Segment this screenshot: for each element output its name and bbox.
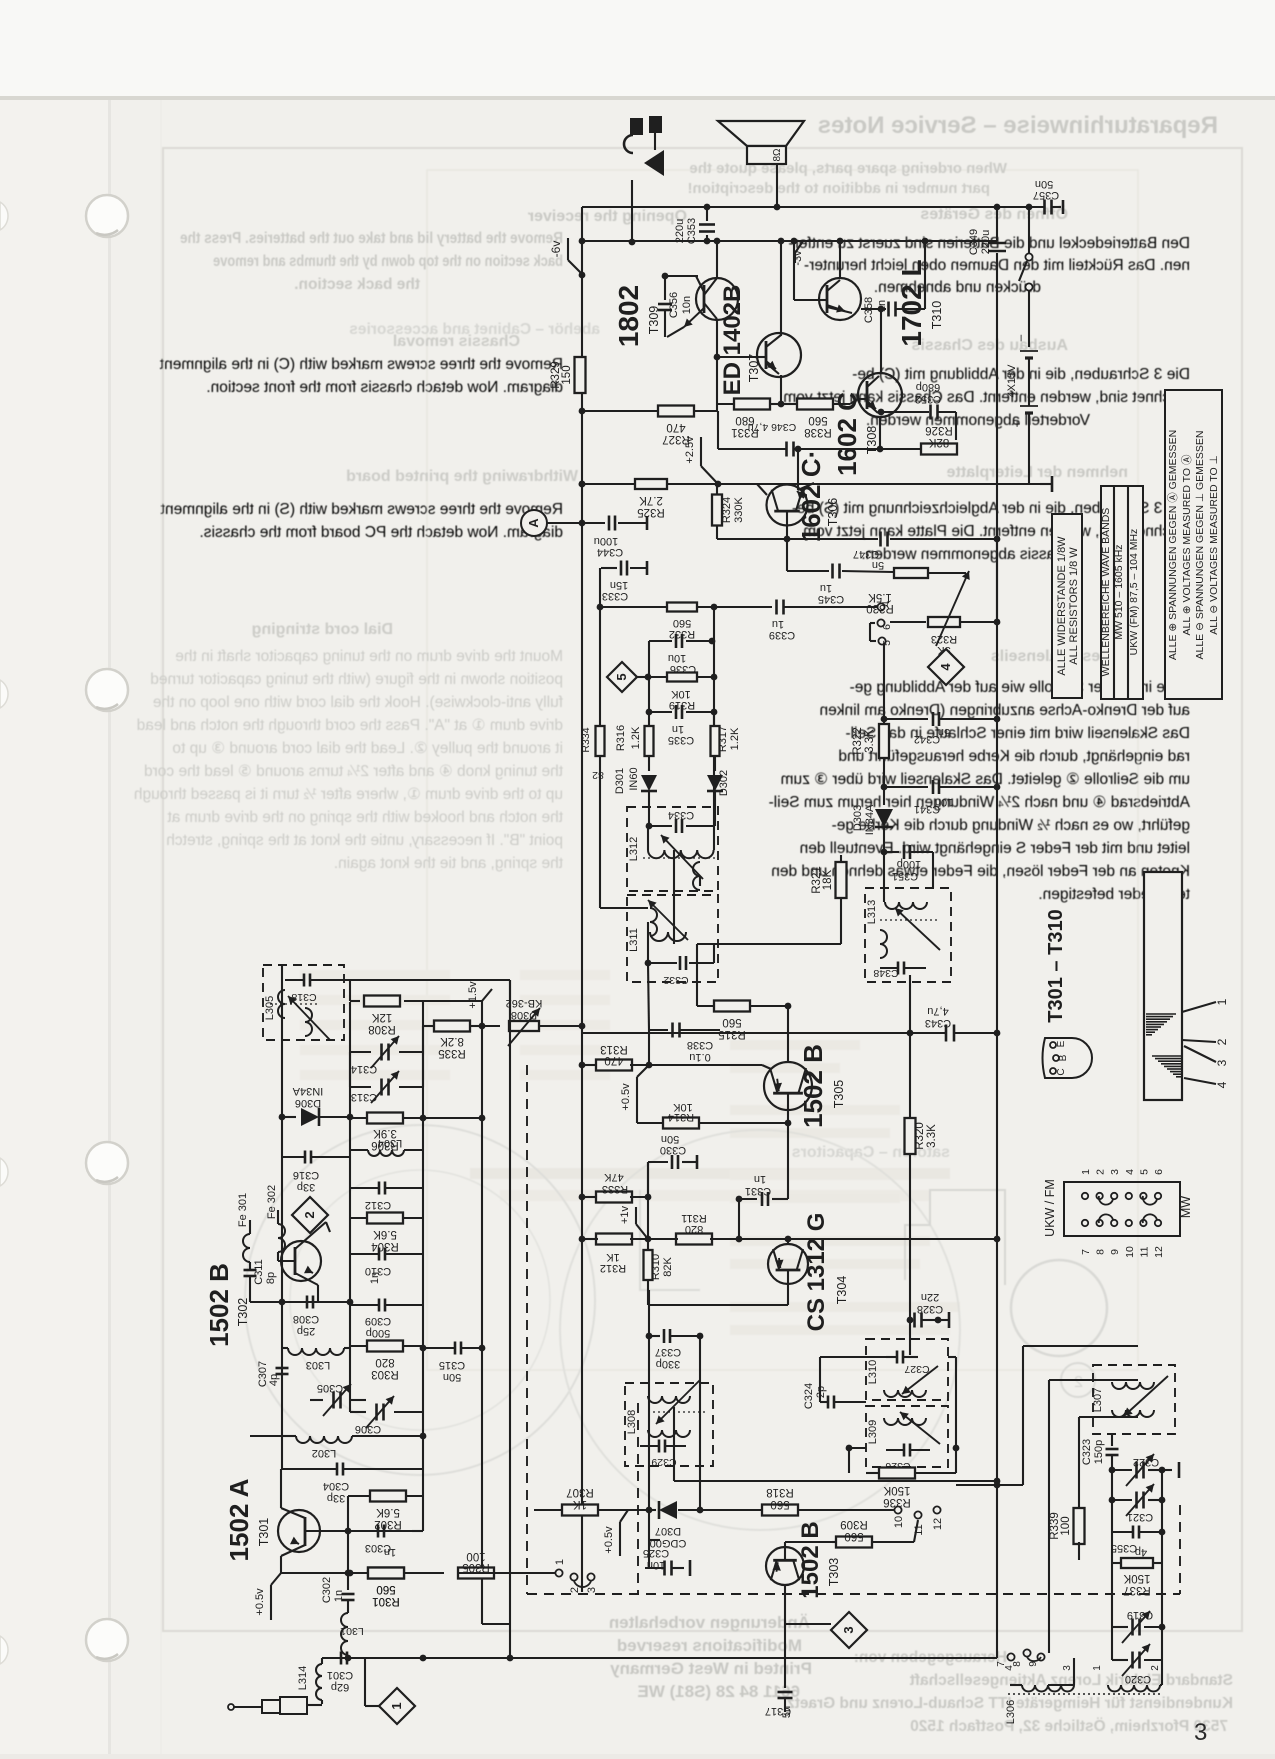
svg-text:3.3K: 3.3K: [864, 729, 876, 753]
IF transformer L310 box: [866, 1339, 948, 1400]
capacitor C318: [303, 974, 306, 987]
svg-text:4p: 4p: [1135, 1546, 1147, 1558]
wire L311 input: [600, 907, 648, 909]
ground C322: [1162, 1469, 1172, 1471]
svg-text:R320: R320: [914, 1122, 926, 1150]
svg-text:12K: 12K: [371, 1011, 392, 1023]
svg-text:18K: 18K: [822, 869, 834, 890]
wire L306a to contacts: [1048, 1684, 1074, 1686]
node junction rail A top: [579, 238, 586, 245]
svg-text:9: 9: [1109, 1249, 1121, 1255]
svg-text:C346 4,7u: C346 4,7u: [748, 421, 797, 433]
rod pin leads: [1182, 1002, 1216, 1012]
wire C327 out left: [820, 1356, 886, 1358]
svg-text:R312: R312: [600, 1262, 626, 1274]
capacitor C322 variable: [1112, 1469, 1132, 1471]
svg-text:IN34A: IN34A: [864, 804, 876, 835]
wire dashed right box: [1179, 1505, 1181, 1594]
svg-text:2.7K: 2.7K: [639, 494, 663, 506]
wire T309 base: [665, 275, 698, 277]
wire T307 emitter: [780, 375, 782, 404]
capacitor C353 electrolytic: [706, 207, 708, 221]
svg-text:ALLE ⊖ SPANNUNGEN GEGEN ⊥ GE: ALLE ⊖ SPANNUNGEN GEGEN ⊥ GEMESSEN: [1194, 431, 1206, 660]
svg-text:T306: T306: [826, 498, 840, 527]
svg-text:C337: C337: [655, 1346, 681, 1358]
svg-text:R318: R318: [766, 1486, 794, 1498]
capacitor C348: [897, 962, 900, 975]
svg-text:1n: 1n: [672, 723, 684, 735]
svg-text:Printed in West Germany: Printed in West Germany: [610, 1659, 812, 1678]
svg-text:1n: 1n: [754, 1173, 766, 1185]
diode D301: [641, 775, 657, 791]
svg-text:560: 560: [844, 1530, 863, 1542]
resistor R303: [367, 1341, 403, 1352]
coil L312 primary: [647, 826, 649, 850]
capacitor C344 electrolytic: [582, 522, 605, 524]
svg-text:L305: L305: [264, 996, 276, 1020]
capacitor C349 electrolytic: [996, 207, 998, 241]
svg-text:R310: R310: [650, 1254, 662, 1280]
resistor R331: [717, 403, 734, 405]
capacitor C332: [645, 960, 652, 967]
svg-text:C314: C314: [351, 1063, 377, 1075]
capacitor C303: [377, 1525, 380, 1538]
capacitor C327: [896, 1351, 899, 1364]
svg-text:560: 560: [808, 414, 827, 426]
svg-text:1502 B: 1502 B: [797, 1521, 824, 1598]
wire T307 collector: [780, 241, 782, 336]
svg-text:MW 510 – 1605: MW 510 – 1605 kHz: [1113, 544, 1125, 639]
svg-text:11: 11: [1138, 1246, 1150, 1257]
svg-text:Remove the three screws marked: Remove the three screws marked with (S) …: [160, 501, 563, 518]
contact 12: [933, 1506, 940, 1513]
svg-text:150p: 150p: [1093, 1440, 1105, 1464]
capacitor C306 variable: [375, 1404, 378, 1421]
svg-text:Remove the three screws marked: Remove the three screws marked with (C) …: [159, 356, 563, 373]
svg-text:1: 1: [1215, 998, 1229, 1005]
resistor R311 in bus: [676, 1234, 712, 1245]
diode D306: [282, 1116, 296, 1118]
svg-text:Opening the receiver: Opening the receiver: [528, 208, 687, 225]
capacitor C324: [820, 1401, 827, 1403]
svg-text:3.3K: 3.3K: [926, 1124, 938, 1148]
svg-text:C325: C325: [643, 1547, 669, 1559]
svg-text:diagram. Now detach the PC boa: diagram. Now detach the PC board from th…: [199, 524, 563, 541]
svg-text:50n: 50n: [661, 1133, 679, 1145]
wire M2 lower: [699, 1336, 701, 1510]
svg-text:50n: 50n: [443, 1371, 461, 1383]
earphone jack symbol: [630, 118, 643, 135]
svg-text:B: B: [1058, 1054, 1069, 1061]
capacitor C315: [454, 1342, 457, 1355]
svg-text:C345: C345: [818, 593, 844, 605]
svg-text:the back section.: the back section.: [294, 276, 420, 293]
svg-text:E: E: [1056, 1040, 1067, 1047]
svg-text:1.2K: 1.2K: [729, 727, 741, 750]
resistor R321: [840, 855, 842, 862]
wire bus Y1033: [582, 1032, 944, 1034]
resistor R313: [582, 1064, 598, 1066]
svg-text:82: 82: [592, 769, 604, 781]
svg-text:L306: L306: [1005, 1700, 1017, 1724]
resistor R327: [582, 410, 658, 412]
capacitor C312: [378, 1182, 381, 1195]
wire column x600: [599, 568, 601, 727]
svg-text:Dial cord stringing: Dial cord stringing: [252, 621, 393, 638]
svg-text:C343: C343: [925, 1017, 951, 1029]
wire C351 riser: [932, 852, 934, 888]
svg-text:T301: T301: [257, 1518, 271, 1547]
svg-text:L308: L308: [626, 1410, 638, 1434]
wire earphone to bus: [654, 133, 656, 150]
svg-text:12: 12: [932, 1518, 944, 1530]
coil L309: [884, 1418, 926, 1425]
coil L307: [1112, 1382, 1154, 1389]
svg-text:C316: C316: [293, 1169, 319, 1181]
svg-text:Änderungen vorbehalten: Änderungen vorbehalten: [609, 1613, 810, 1632]
svg-text:the spring, and tie the knot a: the spring, and tie the knot again.: [334, 855, 563, 872]
svg-text:6611 84 28 (S81) WE: 6611 84 28 (S81) WE: [637, 1682, 800, 1701]
diode D302: [707, 775, 723, 791]
svg-text:C322: C322: [1133, 1456, 1159, 1468]
capacitor C302: [347, 1573, 349, 1590]
wire T305 collector: [787, 1006, 789, 1062]
svg-text:R307: R307: [566, 1486, 594, 1498]
capacitor C335: [648, 677, 650, 712]
svg-text:+2.5v: +2.5v: [684, 436, 696, 464]
legend wave bands table: [1101, 486, 1143, 699]
capacitor C328: [910, 1319, 912, 1321]
svg-text:fully anti-clockwise). Hook th: fully anti-clockwise). Hook the dial cor…: [153, 694, 563, 711]
svg-text:diagram. Now detach chassis fr: diagram. Now detach chassis from the fro…: [206, 379, 563, 396]
svg-text:+1.5v: +1.5v: [467, 981, 479, 1009]
svg-text:R317: R317: [717, 726, 729, 752]
capacitor C317: [784, 1624, 786, 1688]
resistor R317: [713, 712, 715, 726]
node +1.5v: [481, 1001, 483, 1026]
wire M1 lower: [648, 1290, 650, 1510]
ground symbol right: [1040, 483, 1052, 485]
svg-text:T301 – T310: T301 – T310: [1045, 909, 1067, 1022]
svg-text:1K: 1K: [573, 1498, 587, 1510]
svg-text:R311: R311: [681, 1212, 706, 1224]
svg-text:C334: C334: [668, 809, 694, 821]
svg-text:560: 560: [770, 1498, 789, 1510]
resistor R306: [367, 1113, 403, 1124]
svg-text:R309: R309: [840, 1518, 868, 1530]
svg-text:1502 A: 1502 A: [224, 1478, 254, 1561]
svg-text:C333: C333: [602, 590, 628, 602]
wire bus Y1481: [674, 1480, 997, 1482]
wire T304 collector: [787, 1239, 789, 1244]
svg-text:C331: C331: [745, 1185, 771, 1197]
svg-text:C323: C323: [1081, 1439, 1093, 1465]
svg-text:5.6K: 5.6K: [376, 1506, 400, 1518]
rod winding hatch 1: [1146, 1013, 1176, 1015]
wire L311 down column: [648, 963, 649, 1030]
resistor R334: [596, 726, 605, 756]
capacitor C320 variable: [1111, 1627, 1113, 1660]
svg-text:3: 3: [586, 1587, 598, 1593]
band switch UKW FM MW: [1064, 1182, 1180, 1236]
wire T306 emitter to bus: [814, 483, 1040, 485]
resistor R324: [716, 484, 718, 495]
capacitor C313 variable: [349, 1052, 351, 1087]
svg-text:100: 100: [466, 1550, 485, 1562]
capacitor C341: [884, 786, 928, 788]
svg-text:Remove the battery lid and tak: Remove the battery lid and take out the …: [180, 230, 563, 247]
svg-text:47K: 47K: [604, 1171, 624, 1183]
resistor R330: [893, 571, 895, 573]
capacitor C355: [1111, 1500, 1113, 1532]
svg-text:6: 6: [881, 624, 893, 630]
transistor T301 1502A: [278, 1510, 320, 1552]
svg-text:C344: C344: [597, 546, 623, 558]
IF transformer L305 box: [263, 965, 344, 1040]
wire T303 collector: [785, 1541, 832, 1543]
coil L311 primary: [650, 908, 657, 936]
svg-text:5: 5: [614, 673, 629, 680]
svg-text:the notch and hooked with the: the notch and hooked with the spring on …: [167, 809, 563, 826]
contact 2: [570, 1573, 577, 1580]
svg-text:C347: C347: [853, 548, 879, 560]
resistor R308: [350, 1000, 360, 1002]
capacitor C321 variable: [1111, 1470, 1113, 1500]
svg-text:C329: C329: [651, 1456, 676, 1468]
svg-text:C335: C335: [668, 734, 694, 746]
contacts 6 5: [877, 619, 884, 626]
svg-text:C308: C308: [293, 1313, 319, 1325]
svg-text:des Skalenseils: des Skalenseils: [991, 648, 1110, 665]
svg-text:L307: L307: [1092, 1388, 1104, 1412]
svg-text:Reparaturhinweise – Service No: Reparaturhinweise – Service Notes: [818, 112, 1218, 139]
svg-text:100u: 100u: [594, 535, 618, 547]
svg-text:1u: 1u: [820, 582, 832, 594]
svg-text:33p: 33p: [327, 1492, 345, 1504]
core arrow L311: [648, 900, 688, 940]
svg-text:+0.5v: +0.5v: [254, 1588, 266, 1616]
svg-text:R308: R308: [368, 1023, 396, 1035]
ground T301 base: [412, 1530, 423, 1532]
svg-text:C309: C309: [365, 1315, 391, 1327]
svg-text:330p: 330p: [656, 1358, 680, 1370]
coil L306 winding a: [1022, 1685, 1074, 1692]
svg-text:C304: C304: [323, 1480, 349, 1492]
svg-text:5: 5: [1138, 1169, 1150, 1175]
wire top supply bus Y207: [582, 206, 1044, 208]
transistor T309 1802: [696, 278, 738, 320]
svg-text:it around the pulley ②. Lead t: it around the pulley ②. Lead the dial co…: [172, 740, 563, 757]
wire T308 collector: [880, 309, 882, 374]
svg-text:1: 1: [1080, 1169, 1092, 1175]
svg-text:5n: 5n: [872, 559, 884, 571]
antenna telescopic: [228, 1704, 234, 1710]
svg-text:7530 Pforzheim, Östliche 32, P: 7530 Pforzheim, Östliche 32, Postfach 15…: [910, 1718, 1228, 1735]
wire rail D right main: [996, 253, 998, 1658]
wire T310 collector: [839, 241, 841, 278]
IF transformer L313 box: [865, 888, 951, 982]
wire emitter row Y449: [718, 448, 786, 450]
capacitor C305 variable: [332, 1392, 335, 1409]
svg-text:220u: 220u: [980, 230, 992, 254]
svg-text:+1v: +1v: [619, 1205, 631, 1224]
resistor R337: [1111, 1532, 1113, 1563]
wire L313 down: [883, 852, 885, 902]
wire T310 base: [793, 241, 795, 300]
svg-text:L301: L301: [340, 1625, 364, 1637]
wire R330 contact link: [996, 538, 998, 622]
capacitor C316: [304, 1151, 307, 1164]
svg-text:L302: L302: [312, 1447, 336, 1459]
svg-text:R322: R322: [852, 727, 864, 755]
svg-text:L314: L314: [297, 1666, 309, 1690]
svg-text:150: 150: [561, 365, 573, 384]
resistor R309: [832, 1541, 836, 1543]
svg-text:ALLE ⊕ SPANNUNGEN GEGEN Ⓐ GE: ALLE ⊕ SPANNUNGEN GEGEN Ⓐ GEMESSEN: [1167, 430, 1179, 660]
svg-text:UKW (FM) 87,5 – 104 M: UKW (FM) 87,5 – 104 MHz: [1128, 529, 1140, 656]
svg-text:10n: 10n: [681, 296, 693, 314]
coil L305: [278, 990, 285, 1018]
resistor R302: [348, 1495, 370, 1497]
resistor R320: [905, 1118, 916, 1154]
svg-text:+: +: [1010, 420, 1024, 427]
resistor R323 potentiometer: [890, 621, 926, 623]
svg-text:R330: R330: [866, 602, 894, 614]
IF transformer L307 box: [1093, 1365, 1175, 1434]
wire L305 out top: [330, 979, 510, 981]
resistor R333: [582, 1196, 598, 1198]
svg-text:C339: C339: [769, 629, 795, 641]
svg-text:680p: 680p: [916, 381, 940, 393]
svg-text:4p: 4p: [268, 1374, 280, 1386]
svg-text:10: 10: [1124, 1246, 1136, 1258]
resistor R335: [423, 1025, 434, 1027]
capacitor C337: [649, 1335, 660, 1337]
wire left column verticals: [281, 965, 283, 1302]
svg-text:C351: C351: [892, 870, 918, 882]
svg-text:Fe 302: Fe 302: [266, 1185, 278, 1219]
wire T303 emitter: [784, 1585, 786, 1624]
contact 4: [877, 603, 884, 610]
resistor R305: [458, 1568, 494, 1579]
wire M1 lower column: [647, 1162, 649, 1239]
svg-text:560: 560: [673, 617, 691, 629]
svg-text:1K: 1K: [606, 1251, 620, 1263]
svg-text:1602 C·: 1602 C·: [796, 450, 826, 543]
wire C331 riser to bus: [738, 1199, 740, 1239]
svg-text:R334: R334: [580, 727, 592, 752]
svg-text:point "B". If necessary, untie: point "B". If necessary, untie the knot …: [166, 832, 563, 849]
svg-text:L303: L303: [306, 1359, 330, 1371]
svg-text:8Ω: 8Ω: [772, 148, 783, 162]
svg-text:1.5K: 1.5K: [868, 591, 892, 603]
wire T309 collector: [716, 241, 718, 278]
svg-text:Mount the drive drum on the tu: Mount the drive drum on the tuning capac…: [175, 648, 563, 665]
svg-text:1.2K: 1.2K: [630, 726, 642, 749]
svg-text:2p: 2p: [815, 1386, 827, 1398]
wire T305 emitter: [649, 1064, 762, 1066]
svg-text:C349: C349: [968, 229, 980, 255]
capacitor C304: [336, 1463, 339, 1476]
svg-text:R338: R338: [804, 426, 832, 438]
svg-text:Modifications reserved: Modifications reserved: [617, 1636, 802, 1655]
svg-text:D302: D302: [718, 770, 730, 796]
transistor T306 1602C: [767, 485, 808, 526]
svg-text:2: 2: [569, 1587, 581, 1593]
wire R327 to T307 base riser: [716, 357, 718, 411]
speaker LS: [718, 121, 804, 146]
contact 3: [587, 1573, 594, 1580]
capacitor C339: [784, 606, 877, 608]
svg-text:Das Skalenseil wird mit einer: Das Skalenseil wird mit einer Schlaufe i…: [845, 725, 1190, 742]
svg-text:L304: L304: [378, 1137, 402, 1149]
coil L314: [321, 1658, 323, 1664]
svg-text:1702 L: 1702 L: [896, 259, 927, 346]
svg-text:R333: R333: [602, 1183, 628, 1195]
wire FM antenna link: [956, 1484, 1023, 1486]
node +0.5v tick: [637, 1065, 649, 1077]
svg-text:3: 3: [1194, 1719, 1207, 1746]
svg-text:6: 6: [1153, 1169, 1165, 1175]
wire column x510 long: [509, 980, 511, 1658]
coil L312 secondary: [693, 862, 700, 890]
svg-text:3: 3: [1109, 1169, 1121, 1175]
svg-text:T305: T305: [832, 1080, 846, 1109]
transistor T302 1502B: [281, 1241, 321, 1281]
svg-text:2: 2: [1215, 1038, 1229, 1045]
capacitor C345: [786, 539, 788, 571]
capacitor C343: [945, 1025, 948, 1042]
capacitor C301: [340, 1652, 343, 1665]
wire column x714: [713, 607, 715, 826]
svg-text:T310: T310: [930, 301, 944, 330]
wire ground bus Y484: [589, 483, 1040, 485]
capacitor C329: [658, 1440, 661, 1453]
resistor R338: [781, 403, 797, 405]
contacts 7 8 9: [1007, 1653, 1014, 1660]
resistor R310: [647, 1239, 649, 1250]
svg-text:4,7u: 4,7u: [927, 1005, 948, 1017]
svg-text:drive drum ① at "A". Pass the: drive drum ① at "A". Pass the cord throu…: [137, 717, 563, 734]
wire L312 link down: [673, 850, 675, 944]
svg-text:um die Seilrolle ② geleitet. D: um die Seilrolle ② geleitet. Das Skalens…: [781, 771, 1190, 788]
svg-text:7: 7: [1080, 1249, 1092, 1255]
wire T302 emitter row: [250, 1301, 350, 1303]
svg-text:Chassis removal: Chassis removal: [393, 333, 520, 350]
capacitor C319 variable: [1111, 1563, 1113, 1627]
svg-text:C318: C318: [291, 991, 316, 1003]
svg-text:C320: C320: [1125, 1673, 1151, 1685]
svg-text:ALL RESISTORS 1/8 W: ALL RESISTORS 1/8 W: [1068, 547, 1080, 665]
wire -6v feed: [567, 238, 569, 260]
circle A test point: [521, 510, 547, 536]
svg-text:KB-362: KB-362: [506, 997, 543, 1009]
svg-text:UKW / FM: UKW / FM: [1043, 1179, 1057, 1237]
svg-text:560: 560: [722, 1016, 741, 1028]
capacitor C308: [306, 1296, 309, 1309]
capacitor C330: [647, 1162, 649, 1197]
svg-text:CS 1312 G: CS 1312 G: [803, 1213, 830, 1332]
transistor T310 1702L: [819, 278, 861, 320]
svg-text:ALL ⊖ VOLTAGES MEASURED TO: ALL ⊖ VOLTAGES MEASURED TO ⊥: [1208, 455, 1220, 635]
svg-text:7: 7: [996, 1661, 1007, 1667]
wire T308 emitter: [879, 417, 881, 449]
coil L310: [884, 1390, 926, 1397]
svg-text:T304: T304: [835, 1276, 849, 1305]
punch holes: [86, 195, 128, 237]
ferrite rod L306: [1144, 872, 1182, 1100]
svg-text:R326: R326: [925, 424, 953, 436]
